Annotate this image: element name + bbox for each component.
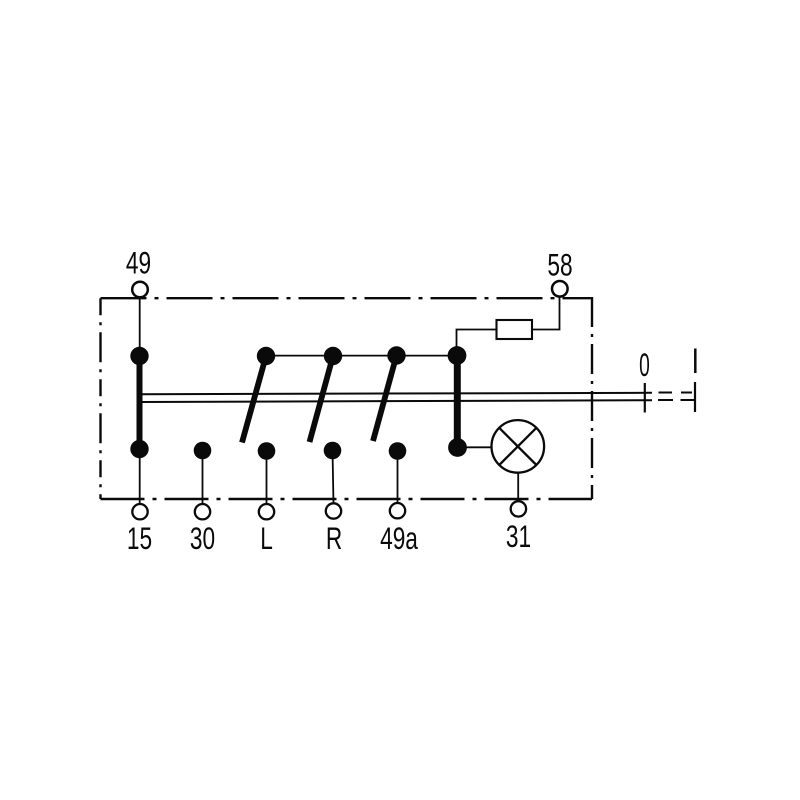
junction dot: contact L top [257, 347, 275, 365]
junction dot: contact 30 [194, 442, 212, 460]
wire right bar to lamp [458, 446, 492, 448]
actuator shaft (double line) [140, 393, 652, 402]
shaft dashed extension [658, 393, 694, 401]
wire contact 49a to terminal 49a [397, 451, 399, 504]
junction dot: left bar top [130, 347, 148, 365]
position mark I [694, 382, 696, 412]
junction dot: contact L bottom [258, 442, 276, 460]
junction dot: right bar bottom [448, 438, 467, 457]
terminal 30 [195, 504, 210, 519]
wire right bar to resistor [457, 330, 497, 356]
terminal L [259, 504, 274, 519]
terminal 49 [132, 282, 148, 298]
junction dot: contact R top [324, 347, 342, 365]
svg-text:15: 15 [127, 520, 152, 556]
svg-text:L: L [260, 520, 273, 556]
label I [694, 349, 697, 374]
terminal 49a [390, 503, 405, 518]
wire lamp to terminal 31 [517, 473, 519, 501]
svg-text:31: 31 [506, 518, 531, 554]
wire bar to terminal 15 [139, 449, 141, 504]
bus wire top node (L-R-49a-58) [266, 355, 457, 357]
svg-text:30: 30 [190, 520, 215, 556]
wire resistor to terminal 58 [532, 297, 560, 330]
junction dot: left bar bottom [130, 440, 148, 458]
terminal 58 [552, 281, 568, 297]
movable contact 49a (slanted) [373, 356, 397, 442]
junction dot: contact 49a bottom [389, 442, 407, 460]
movable contact R (slanted) [310, 356, 334, 442]
resistor (58 dropper) [497, 320, 533, 339]
junction dot: right bar top [448, 346, 467, 365]
wire contact L to terminal L [266, 451, 268, 504]
svg-text:0: 0 [639, 347, 650, 383]
wire contact R to terminal R [333, 451, 334, 505]
terminal 15 [132, 504, 147, 519]
svg-text:R: R [326, 520, 342, 556]
svg-text:49: 49 [126, 245, 151, 281]
svg-text:58: 58 [547, 247, 572, 283]
fixed contact bar 15-49 [137, 356, 143, 449]
svg-text:49a: 49a [380, 520, 418, 556]
wire contact 30 to terminal 30 [202, 451, 204, 505]
switch enclosure border (dash-dot) [101, 297, 593, 499]
terminal 31 [511, 501, 526, 516]
terminal R [326, 503, 341, 518]
movable contact L (slanted) [242, 356, 266, 443]
indicator lamp [492, 420, 545, 473]
junction dot: contact R bottom [324, 442, 342, 460]
fixed contact bar right (58/31 side) [454, 356, 461, 448]
wire terminal 49 to left contact bar [139, 297, 141, 350]
position mark 0 [644, 383, 646, 413]
junction dot: contact 49a top [387, 346, 405, 364]
